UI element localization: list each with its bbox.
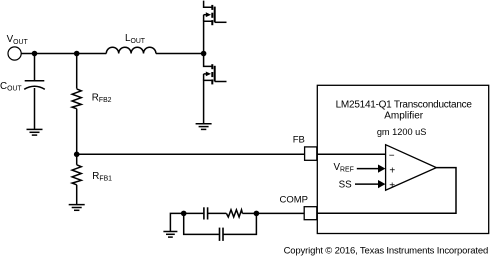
Q2 channel bar segment 2 <box>211 72 213 77</box>
wire comp bottom branch <box>184 213 219 234</box>
Q2 gate lead <box>215 81 227 83</box>
node comp-left junction <box>181 211 187 217</box>
Q2 channel bar segment 3 <box>211 79 213 84</box>
svg-text:−: − <box>389 150 395 161</box>
Q2 source lead <box>204 80 212 123</box>
Q1 drain lead <box>204 1 212 8</box>
node Cout junction <box>32 51 38 57</box>
wire comp top branch left <box>184 212 204 214</box>
arrow Vref head <box>378 165 386 173</box>
svg-text:LM25141-Q1 Transconductance: LM25141-Q1 Transconductance <box>336 99 473 110</box>
svg-text:RFB2: RFB2 <box>92 92 112 104</box>
Q2 drain lead <box>204 54 212 67</box>
op-amp U1 <box>386 145 437 191</box>
ground Cout <box>27 129 43 135</box>
node COMP junction <box>254 211 260 217</box>
Q2 body arrow <box>206 72 211 77</box>
svg-text:gm 1200 uS: gm 1200 uS <box>377 127 427 137</box>
wire op-amp output to COMP <box>317 168 456 214</box>
capacitor Ccomp <box>204 207 208 219</box>
capacitor Chf <box>220 228 224 241</box>
Q1 source lead <box>204 21 212 53</box>
svg-text:+: + <box>389 180 395 191</box>
wire Vref arrow shaft <box>357 168 379 170</box>
svg-text:+: + <box>389 165 395 176</box>
pin FB box <box>305 147 317 160</box>
Q1 channel bar segment 2 <box>211 13 213 18</box>
node switch junction <box>201 51 207 57</box>
svg-text:RFB1: RFB1 <box>92 171 112 183</box>
Q1 gate lead <box>215 21 227 23</box>
wire Vout rail left <box>21 53 106 55</box>
wire rail to switch node <box>156 53 204 55</box>
ground Q2 <box>196 124 212 130</box>
Q1 channel bar segment 1 <box>211 5 213 10</box>
wire cap to resistor <box>208 212 226 214</box>
resistor Rfb1 <box>72 154 81 204</box>
capacitor Cout <box>24 81 45 129</box>
inductor Lout <box>106 47 156 53</box>
wire Cout branch <box>34 54 36 81</box>
Q2 gate bar <box>214 66 216 82</box>
svg-text:COUT: COUT <box>0 81 22 93</box>
Q2 channel bar segment 1 <box>211 64 213 69</box>
block LM25141 <box>317 85 488 233</box>
resistor Rcomp <box>226 210 242 217</box>
wire COMP line <box>256 212 304 214</box>
Q1 body lead <box>204 14 207 16</box>
pin COMP box <box>304 207 317 220</box>
ground Rfb1 <box>69 205 85 211</box>
transistor Q2 low-side <box>204 54 227 124</box>
ground comp network <box>163 232 177 238</box>
resistor Rfb2 <box>72 54 81 155</box>
node Rfb2 junction <box>74 51 80 57</box>
terminal Vout circle <box>8 47 21 60</box>
svg-text:COMP: COMP <box>280 194 309 205</box>
svg-text:VOUT: VOUT <box>7 34 29 46</box>
Q2 body lead <box>204 73 207 75</box>
Q1 body-source connector <box>203 15 205 22</box>
svg-text:LOUT: LOUT <box>125 33 146 45</box>
svg-text:Copyright © 2016, Texas Instru: Copyright © 2016, Texas Instruments Inco… <box>284 245 489 256</box>
svg-text:FB: FB <box>293 135 305 146</box>
Q1 body arrow <box>206 12 211 17</box>
Q1 channel bar segment 3 <box>211 20 213 25</box>
transistor Q1 high-side <box>204 1 227 54</box>
wire SS arrow shaft <box>355 183 379 185</box>
Q2 body-source connector <box>203 74 205 81</box>
wire comp ground branch <box>170 213 183 231</box>
svg-text:Amplifier: Amplifier <box>384 111 424 122</box>
node FB junction <box>74 152 80 158</box>
wire FB line <box>77 153 305 155</box>
svg-text:SS: SS <box>339 179 353 190</box>
wire FB to op-amp <box>317 153 386 155</box>
wire resistor to COMP node <box>242 212 256 214</box>
Q1 gate bar <box>214 7 216 23</box>
wire Chf to COMP node <box>223 213 256 234</box>
arrow SS head <box>378 180 386 188</box>
